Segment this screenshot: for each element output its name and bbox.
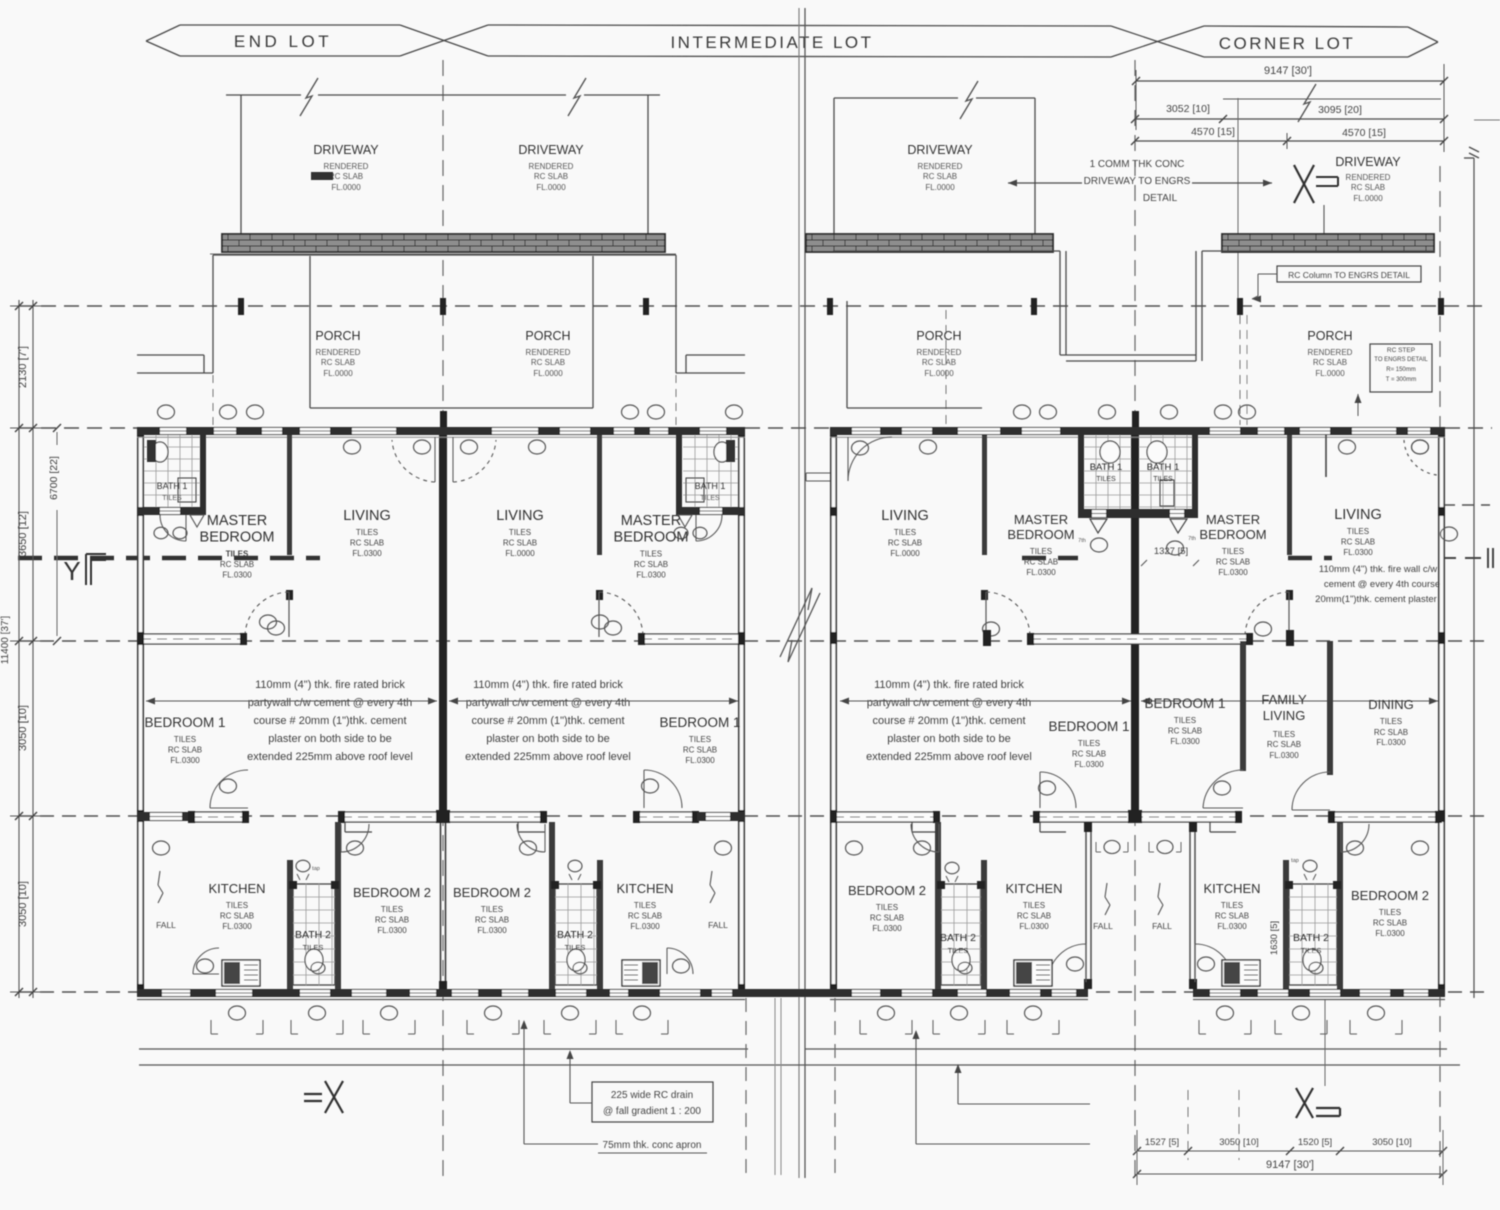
svg-text:BEDROOM 2: BEDROOM 2 bbox=[1351, 888, 1429, 903]
wall living/master C x982 bbox=[981, 435, 988, 600]
svg-text:FALL: FALL bbox=[1093, 921, 1113, 931]
svg-text:KITCHEN: KITCHEN bbox=[1005, 881, 1062, 896]
svg-text:3052 [10]: 3052 [10] bbox=[1166, 103, 1210, 115]
driveway side line x241 bbox=[240, 95, 242, 234]
svg-text:FL.0300: FL.0300 bbox=[477, 926, 507, 935]
svg-text:BEDROOM 1: BEDROOM 1 bbox=[659, 715, 740, 730]
front door A bbox=[392, 440, 435, 482]
bath1 B walls bbox=[676, 427, 745, 515]
leader below X top bbox=[1323, 205, 1325, 234]
wall kitchenD left x1190 bbox=[1189, 822, 1197, 989]
svg-text:MASTER: MASTER bbox=[621, 513, 681, 529]
leader conc apron bbox=[521, 1020, 599, 1144]
porch outline left block bbox=[137, 255, 745, 373]
svg-text:7th: 7th bbox=[1188, 536, 1196, 542]
svg-text:TILES: TILES bbox=[1301, 946, 1322, 955]
svg-text:BATH 1: BATH 1 bbox=[1090, 462, 1123, 473]
front wall circles left bbox=[344, 440, 546, 454]
circle bath2 D inner bbox=[1309, 962, 1323, 973]
svg-text:TILES: TILES bbox=[700, 495, 720, 502]
svg-text:FL.0300: FL.0300 bbox=[377, 926, 407, 935]
bath C label bbox=[1090, 462, 1123, 483]
dim texts bottom 1 bbox=[1145, 1137, 1412, 1148]
svg-text:TILES: TILES bbox=[1096, 476, 1116, 483]
window circles y848 bbox=[153, 841, 732, 855]
svg-text:RC SLAB: RC SLAB bbox=[1374, 728, 1408, 737]
svg-text:TILES: TILES bbox=[162, 495, 182, 502]
window circles below right block bbox=[860, 1006, 1402, 1034]
circle bedroom1 C door bbox=[1039, 781, 1056, 795]
svg-text:RC SLAB: RC SLAB bbox=[1351, 183, 1385, 192]
svg-text:TILES: TILES bbox=[303, 943, 324, 952]
boundary line x1474 bbox=[1473, 158, 1475, 998]
utility symbol top right bbox=[1464, 120, 1500, 158]
svg-text:3050 [10]: 3050 [10] bbox=[17, 881, 29, 927]
svg-text:DRIVEWAY TO ENGRS: DRIVEWAY TO ENGRS bbox=[1084, 176, 1191, 187]
svg-text:FL.0300: FL.0300 bbox=[1376, 738, 1406, 747]
back wall underline left bbox=[137, 999, 745, 1001]
circle bedroom1 B door bbox=[642, 779, 659, 793]
svg-text:FL.0300: FL.0300 bbox=[1026, 568, 1056, 577]
svg-text:RC SLAB: RC SLAB bbox=[220, 560, 254, 569]
break symbol between blocks bbox=[780, 588, 820, 662]
door bedroom2 C bbox=[911, 824, 939, 852]
toilet glyph B bbox=[568, 860, 582, 880]
svg-text:RC SLAB: RC SLAB bbox=[1216, 558, 1250, 567]
lot line x1135 dashed bbox=[1134, 60, 1136, 1178]
svg-text:110mm (4") thk. fire rated bri: 110mm (4") thk. fire rated brick bbox=[255, 679, 405, 691]
wall kitchenD/bath2D x1283 bbox=[1283, 860, 1289, 989]
kitchen sink A bbox=[222, 960, 260, 986]
svg-text:LIVING: LIVING bbox=[881, 508, 929, 524]
wall right outer x738 bbox=[738, 427, 745, 996]
mid circles y630 bbox=[268, 621, 622, 635]
circle bedroom1 D door bbox=[1214, 781, 1231, 795]
wall bath2C/kitchenC x981 bbox=[981, 860, 987, 989]
svg-text:MASTER: MASTER bbox=[207, 513, 267, 529]
svg-text:plaster on both side to be: plaster on both side to be bbox=[887, 733, 1011, 745]
door kitchen A bbox=[193, 948, 219, 974]
svg-text:RC SLAB: RC SLAB bbox=[1373, 919, 1407, 928]
lot line pair x799/x805 bbox=[799, 8, 805, 1178]
svg-text:RC SLAB: RC SLAB bbox=[870, 914, 904, 923]
svg-text:3095 [20]: 3095 [20] bbox=[1318, 104, 1362, 116]
svg-text:FL.0000: FL.0000 bbox=[1353, 194, 1383, 203]
dim line bottom 1 bbox=[1133, 1147, 1447, 1155]
wall bath2A right x335 bbox=[335, 822, 341, 989]
door master C bbox=[985, 592, 987, 637]
svg-text:225 wide RC drain: 225 wide RC drain bbox=[611, 1090, 693, 1101]
svg-text:TILES: TILES bbox=[634, 901, 656, 910]
svg-text:tap: tap bbox=[1291, 858, 1299, 864]
svg-text:FL.0300: FL.0300 bbox=[170, 756, 200, 765]
svg-text:RENDERED: RENDERED bbox=[316, 348, 361, 357]
svg-text:cement @ every 4th course: cement @ every 4th course bbox=[1324, 579, 1440, 590]
bath pair walls bbox=[1078, 427, 1198, 518]
svg-text:RC SLAB: RC SLAB bbox=[503, 539, 537, 548]
section line Y right stubs bbox=[1022, 548, 1493, 568]
door master D bbox=[1288, 592, 1290, 637]
svg-text:RC SLAB: RC SLAB bbox=[531, 358, 565, 367]
svg-text:FL.0300: FL.0300 bbox=[685, 756, 715, 765]
svg-text:KITCHEN: KITCHEN bbox=[616, 881, 673, 896]
left dim vertical lines bbox=[19, 300, 33, 998]
svg-text:partywall c/w cement @ every 4: partywall c/w cement @ every 4th bbox=[466, 697, 631, 709]
svg-text:TILES: TILES bbox=[1030, 547, 1052, 556]
tap circles bath1 B bbox=[674, 527, 707, 538]
svg-text:PORCH: PORCH bbox=[1307, 329, 1352, 343]
svg-text:extended 225mm above roof leve: extended 225mm above roof level bbox=[866, 751, 1032, 763]
svg-text:RENDERED: RENDERED bbox=[917, 348, 962, 357]
note comm thk conc driveway bbox=[1084, 159, 1191, 204]
circle kitchen A door bbox=[197, 959, 214, 973]
svg-text:3050 [10]: 3050 [10] bbox=[1372, 1137, 1412, 1148]
door bedroom1 B bbox=[644, 770, 682, 808]
note partywall A bbox=[247, 679, 413, 763]
svg-text:BEDROOM 1: BEDROOM 1 bbox=[1144, 696, 1225, 711]
svg-text:1 COMM THK CONC: 1 COMM THK CONC bbox=[1090, 159, 1185, 170]
dashed vertical x835 bottom bbox=[834, 998, 836, 1178]
grid line y816 bbox=[18, 815, 1492, 817]
left dim ticks bbox=[10, 302, 42, 996]
circle kitchen D door bbox=[1198, 957, 1215, 971]
toilet glyph D bbox=[1291, 858, 1317, 880]
window circles right y848 bbox=[846, 841, 1429, 855]
svg-text:DETAIL: DETAIL bbox=[1143, 193, 1178, 204]
wall y812 seg left bbox=[137, 811, 249, 823]
dim line 3095 upper bbox=[1223, 98, 1441, 100]
grid line y992 bbox=[18, 991, 1492, 993]
svg-text:110mm (4") thk. fire wall c/w: 110mm (4") thk. fire wall c/w bbox=[1319, 564, 1437, 575]
svg-text:BEDROOM: BEDROOM bbox=[200, 530, 275, 546]
fall mark B bbox=[708, 871, 728, 930]
lot banner CORNER LOT bbox=[1204, 26, 1438, 57]
svg-text:TILES: TILES bbox=[1347, 527, 1369, 536]
svg-text:FL.0300: FL.0300 bbox=[1074, 760, 1104, 769]
fall mark D bbox=[1152, 883, 1172, 931]
svg-text:RC SLAB: RC SLAB bbox=[1072, 750, 1106, 759]
leader RC drain bbox=[567, 1050, 593, 1103]
svg-text:9147 [30']: 9147 [30'] bbox=[1264, 65, 1312, 77]
svg-text:TILES: TILES bbox=[894, 528, 916, 537]
svg-text:RC SLAB: RC SLAB bbox=[922, 358, 956, 367]
door bedroom1 C bbox=[1040, 772, 1076, 808]
bath1 B door bbox=[696, 515, 722, 541]
circle living C door bbox=[852, 441, 869, 455]
front wall right block y427 bbox=[830, 427, 1445, 437]
wall bath2B left x549 bbox=[549, 822, 555, 989]
wall right outer x1438 bbox=[1438, 427, 1445, 996]
door master B bbox=[598, 592, 600, 637]
grid stub y505 right bbox=[1443, 504, 1490, 506]
svg-text:110mm (4") thk. fire rated bri: 110mm (4") thk. fire rated brick bbox=[874, 679, 1024, 691]
note partywall D bbox=[1315, 564, 1440, 605]
svg-text:4570 [15]: 4570 [15] bbox=[1191, 126, 1235, 138]
svg-text:FALL: FALL bbox=[156, 920, 176, 930]
driveway side line x648 bbox=[647, 95, 649, 234]
svg-text:3050 [10]: 3050 [10] bbox=[1219, 1137, 1259, 1148]
svg-text:LIVING: LIVING bbox=[343, 508, 391, 524]
svg-text:RENDERED: RENDERED bbox=[529, 162, 574, 171]
arrow span unit D bbox=[1141, 698, 1438, 705]
circle bath2 B inner bbox=[573, 962, 587, 973]
svg-text:TILES: TILES bbox=[1222, 547, 1244, 556]
svg-text:@ fall gradient 1 : 200: @ fall gradient 1 : 200 bbox=[603, 1106, 701, 1117]
window circles below left block bbox=[211, 1006, 668, 1034]
culvert lines between blocks bbox=[775, 998, 781, 1175]
note box RC drain bbox=[592, 1082, 713, 1122]
svg-text:BATH 2: BATH 2 bbox=[295, 929, 331, 941]
svg-text:RC SLAB: RC SLAB bbox=[628, 912, 662, 921]
note conc apron bbox=[598, 1140, 707, 1153]
arrow span unit A bbox=[146, 698, 437, 705]
driveway label DRIVEWAY C bbox=[907, 143, 973, 192]
svg-text:BATH 1: BATH 1 bbox=[1147, 462, 1180, 473]
front door living C bbox=[848, 437, 892, 481]
bath C tiles bbox=[1084, 435, 1131, 509]
drain hatch band left block bbox=[222, 234, 665, 252]
svg-text:FL.0000: FL.0000 bbox=[331, 183, 361, 192]
svg-text:Y: Y bbox=[63, 556, 80, 586]
svg-text:1630 [5]: 1630 [5] bbox=[1269, 921, 1280, 955]
svg-text:RENDERED: RENDERED bbox=[1346, 173, 1391, 182]
svg-text:1527 [5]: 1527 [5] bbox=[1145, 1137, 1179, 1148]
svg-text:BEDROOM 2: BEDROOM 2 bbox=[353, 885, 431, 900]
wall kitchenC right x1085 bbox=[1084, 822, 1092, 989]
door bedroom2 B bbox=[517, 824, 545, 852]
svg-text:RC SLAB: RC SLAB bbox=[888, 539, 922, 548]
circle bedroom2 A door bbox=[347, 841, 364, 855]
svg-text:FL.0300: FL.0300 bbox=[1343, 548, 1373, 557]
bath D door tri bbox=[1170, 519, 1187, 533]
svg-text:tap: tap bbox=[312, 866, 320, 872]
label DINING bbox=[1368, 697, 1414, 747]
label BATH 2 C bbox=[940, 932, 976, 955]
arrow left to driveway C bbox=[1008, 180, 1082, 187]
section marker X bottom left bbox=[304, 1081, 343, 1113]
wall master/living D x1287 bbox=[1286, 435, 1293, 600]
svg-text:DRIVEWAY: DRIVEWAY bbox=[313, 143, 379, 157]
svg-text:TILES: TILES bbox=[174, 735, 196, 744]
mid posts y637 bbox=[983, 630, 1294, 646]
driveway side line x834 bbox=[833, 98, 835, 234]
note partywall B bbox=[465, 679, 631, 763]
arrow span unit B bbox=[449, 698, 738, 705]
svg-text:RC SLAB: RC SLAB bbox=[1017, 912, 1051, 921]
column marker 1034 bbox=[1031, 298, 1037, 315]
section marker X top bbox=[1294, 165, 1338, 203]
porch lot dashes bbox=[213, 375, 676, 426]
yard window circles bbox=[1096, 840, 1181, 853]
svg-text:FL.0300: FL.0300 bbox=[1375, 929, 1405, 938]
svg-text:FL.0300: FL.0300 bbox=[352, 549, 382, 558]
svg-text:END LOT: END LOT bbox=[234, 32, 332, 51]
drain line upper bbox=[139, 1048, 1447, 1050]
svg-text:FL.0000: FL.0000 bbox=[1315, 369, 1345, 378]
svg-text:RC SLAB: RC SLAB bbox=[375, 916, 409, 925]
svg-text:FL.0300: FL.0300 bbox=[222, 571, 252, 580]
column marker 241 bbox=[238, 298, 244, 315]
window wall bedroom1 B bbox=[640, 634, 743, 644]
circle kitchen C door bbox=[1067, 957, 1084, 971]
door kitchen C bbox=[1048, 944, 1086, 982]
arrow span unit C bbox=[840, 698, 1131, 705]
label FAMILY LIVING bbox=[1261, 692, 1307, 760]
svg-text:TILES: TILES bbox=[226, 550, 249, 559]
door bedroom1 A bbox=[210, 770, 248, 808]
svg-text:FALL: FALL bbox=[1152, 921, 1172, 931]
svg-text:TILES: TILES bbox=[356, 528, 378, 537]
svg-text:4570 [15]: 4570 [15] bbox=[1342, 127, 1386, 139]
wall bath2B right x597 bbox=[597, 860, 603, 989]
svg-text:RC SLAB: RC SLAB bbox=[329, 172, 363, 181]
back wall left block y989 bbox=[137, 989, 989, 997]
circle bedroom2 B door bbox=[520, 841, 537, 855]
svg-text:TILES: TILES bbox=[1380, 717, 1402, 726]
svg-text:BEDROOM: BEDROOM bbox=[614, 530, 689, 546]
svg-text:FL.0000: FL.0000 bbox=[536, 183, 566, 192]
svg-text:RC STEP: RC STEP bbox=[1387, 347, 1415, 354]
door dining bbox=[1292, 772, 1330, 810]
wall bath2A left x287 bbox=[287, 860, 293, 989]
svg-text:BEDROOM 2: BEDROOM 2 bbox=[848, 883, 926, 898]
svg-text:RC SLAB: RC SLAB bbox=[475, 916, 509, 925]
toilet glyph C bbox=[945, 862, 959, 882]
bath2 A tiles bbox=[289, 881, 339, 985]
svg-text:BEDROOM 2: BEDROOM 2 bbox=[453, 885, 531, 900]
svg-text:TILES: TILES bbox=[689, 735, 711, 744]
svg-text:DINING: DINING bbox=[1368, 697, 1414, 712]
svg-text:RC SLAB: RC SLAB bbox=[321, 358, 355, 367]
note partywall C bbox=[866, 679, 1032, 763]
bath2 B tiles bbox=[551, 881, 601, 985]
svg-text:FL.0300: FL.0300 bbox=[1170, 737, 1200, 746]
section line Y bold bbox=[18, 556, 320, 561]
front wall left block y427 bbox=[137, 427, 745, 437]
kitchen sink B bbox=[622, 960, 660, 986]
svg-text:RENDERED: RENDERED bbox=[1308, 348, 1353, 357]
svg-text:KITCHEN: KITCHEN bbox=[208, 881, 265, 896]
label BATH 2 D bbox=[1293, 932, 1329, 955]
svg-text:RC SLAB: RC SLAB bbox=[1215, 912, 1249, 921]
leader drain right 1 bbox=[955, 1064, 1091, 1104]
circle right wall bbox=[1441, 527, 1458, 541]
toilet glyph A bbox=[296, 860, 320, 880]
front door B bbox=[453, 440, 496, 482]
svg-text:RC SLAB: RC SLAB bbox=[923, 172, 957, 181]
back wall right block bbox=[830, 989, 1445, 997]
section marker X bottom right bbox=[1296, 1088, 1340, 1118]
column marker 1240 bbox=[1237, 298, 1243, 315]
svg-text:RC Column TO ENGRS DETAIL: RC Column TO ENGRS DETAIL bbox=[1288, 270, 1410, 280]
svg-text:TILES: TILES bbox=[226, 901, 248, 910]
svg-text:TILES: TILES bbox=[948, 946, 969, 955]
svg-text:BEDROOM 1: BEDROOM 1 bbox=[144, 715, 225, 730]
svg-text:LIVING: LIVING bbox=[1334, 507, 1382, 523]
svg-text:FALL: FALL bbox=[708, 920, 728, 930]
wall bedroom1D/family x1240 bbox=[1240, 641, 1246, 771]
svg-text:RC SLAB: RC SLAB bbox=[1313, 358, 1347, 367]
wall y812 center seg bbox=[338, 810, 547, 832]
door bedroom2 D bbox=[1341, 824, 1369, 852]
door kitchen B bbox=[667, 948, 693, 974]
svg-text:FL.0000: FL.0000 bbox=[924, 369, 954, 378]
leader X bottom right bbox=[1324, 1000, 1326, 1086]
svg-text:3650 [12]: 3650 [12] bbox=[17, 511, 29, 557]
svg-text:FL.0300: FL.0300 bbox=[1217, 922, 1247, 931]
svg-text:6700 [22]: 6700 [22] bbox=[48, 456, 60, 500]
svg-text:PORCH: PORCH bbox=[525, 329, 570, 343]
svg-text:DRIVEWAY: DRIVEWAY bbox=[1335, 155, 1401, 169]
lot banner INTERMEDIATE LOT bbox=[488, 25, 1204, 57]
svg-text:CORNER LOT: CORNER LOT bbox=[1219, 34, 1355, 53]
break symbol driveway C bbox=[960, 81, 978, 119]
svg-text:PORCH: PORCH bbox=[916, 329, 961, 343]
hatch band underline left bbox=[210, 253, 676, 255]
leader drain right 2 bbox=[913, 1030, 1091, 1144]
left dim line 6700 bbox=[53, 424, 61, 645]
leader RC Column bbox=[1252, 274, 1277, 303]
svg-text:BEDROOM: BEDROOM bbox=[1199, 527, 1266, 542]
arrow right to driveway D bbox=[1192, 180, 1272, 187]
note box RC Column bbox=[1277, 266, 1421, 282]
column marker 1441 bbox=[1438, 298, 1444, 315]
svg-text:7th: 7th bbox=[1078, 538, 1086, 544]
svg-text:MASTER: MASTER bbox=[1206, 512, 1260, 527]
svg-text:1520 [5]: 1520 [5] bbox=[1298, 1137, 1332, 1148]
party wall x1132 right block bbox=[1131, 411, 1139, 822]
svg-text:RENDERED: RENDERED bbox=[526, 348, 571, 357]
svg-text:BATH 1: BATH 1 bbox=[157, 481, 188, 491]
break symbol driveway A bbox=[300, 78, 318, 116]
svg-text:BATH 2: BATH 2 bbox=[940, 932, 976, 944]
svg-text:FL.0000: FL.0000 bbox=[925, 183, 955, 192]
svg-text:TILES: TILES bbox=[640, 550, 662, 559]
driveway top edge C bbox=[834, 97, 1035, 99]
svg-text:BATH 1: BATH 1 bbox=[695, 481, 726, 491]
wall left outer x137 bbox=[137, 427, 144, 996]
svg-text:extended 225mm above roof leve: extended 225mm above roof level bbox=[247, 751, 413, 763]
bath C door tri bbox=[1090, 519, 1107, 533]
svg-text:FL.0000: FL.0000 bbox=[505, 549, 535, 558]
grid line x1238 bbox=[946, 98, 1247, 425]
kitchen sink C bbox=[1014, 960, 1052, 986]
lot line x443 dashed bbox=[442, 60, 444, 1178]
porch label PORCH C bbox=[916, 329, 961, 378]
svg-text:BEDROOM 1: BEDROOM 1 bbox=[1048, 719, 1129, 734]
fall mark C bbox=[1093, 883, 1113, 931]
svg-text:extended 225mm above roof leve: extended 225mm above roof level bbox=[465, 751, 631, 763]
column marker 830 bbox=[827, 298, 833, 315]
svg-text:LIVING: LIVING bbox=[1263, 708, 1306, 723]
svg-text:FL.0000: FL.0000 bbox=[323, 369, 353, 378]
dim 1327 bbox=[1141, 546, 1199, 566]
porch inner lines left block bbox=[310, 256, 593, 408]
svg-text:2130 [7']: 2130 [7'] bbox=[17, 346, 29, 388]
dim line 3052 bbox=[1131, 115, 1448, 123]
wall stub x1326 bbox=[1325, 435, 1327, 477]
tap circles bath1 A bbox=[154, 527, 187, 538]
svg-text:FAMILY: FAMILY bbox=[1261, 692, 1307, 707]
svg-text:TILES: TILES bbox=[565, 943, 586, 952]
svg-text:FL.0300: FL.0300 bbox=[630, 922, 660, 931]
svg-text:partywall c/w cement @ every 4: partywall c/w cement @ every 4th bbox=[867, 697, 1032, 709]
dim line 9147 top bbox=[1132, 64, 1448, 152]
grid line y641 bbox=[18, 640, 1492, 642]
wall y812 R seg right bbox=[1330, 812, 1440, 822]
porch label PORCH D bbox=[1307, 329, 1352, 378]
svg-text:INTERMEDIATE LOT: INTERMEDIATE LOT bbox=[670, 33, 873, 52]
